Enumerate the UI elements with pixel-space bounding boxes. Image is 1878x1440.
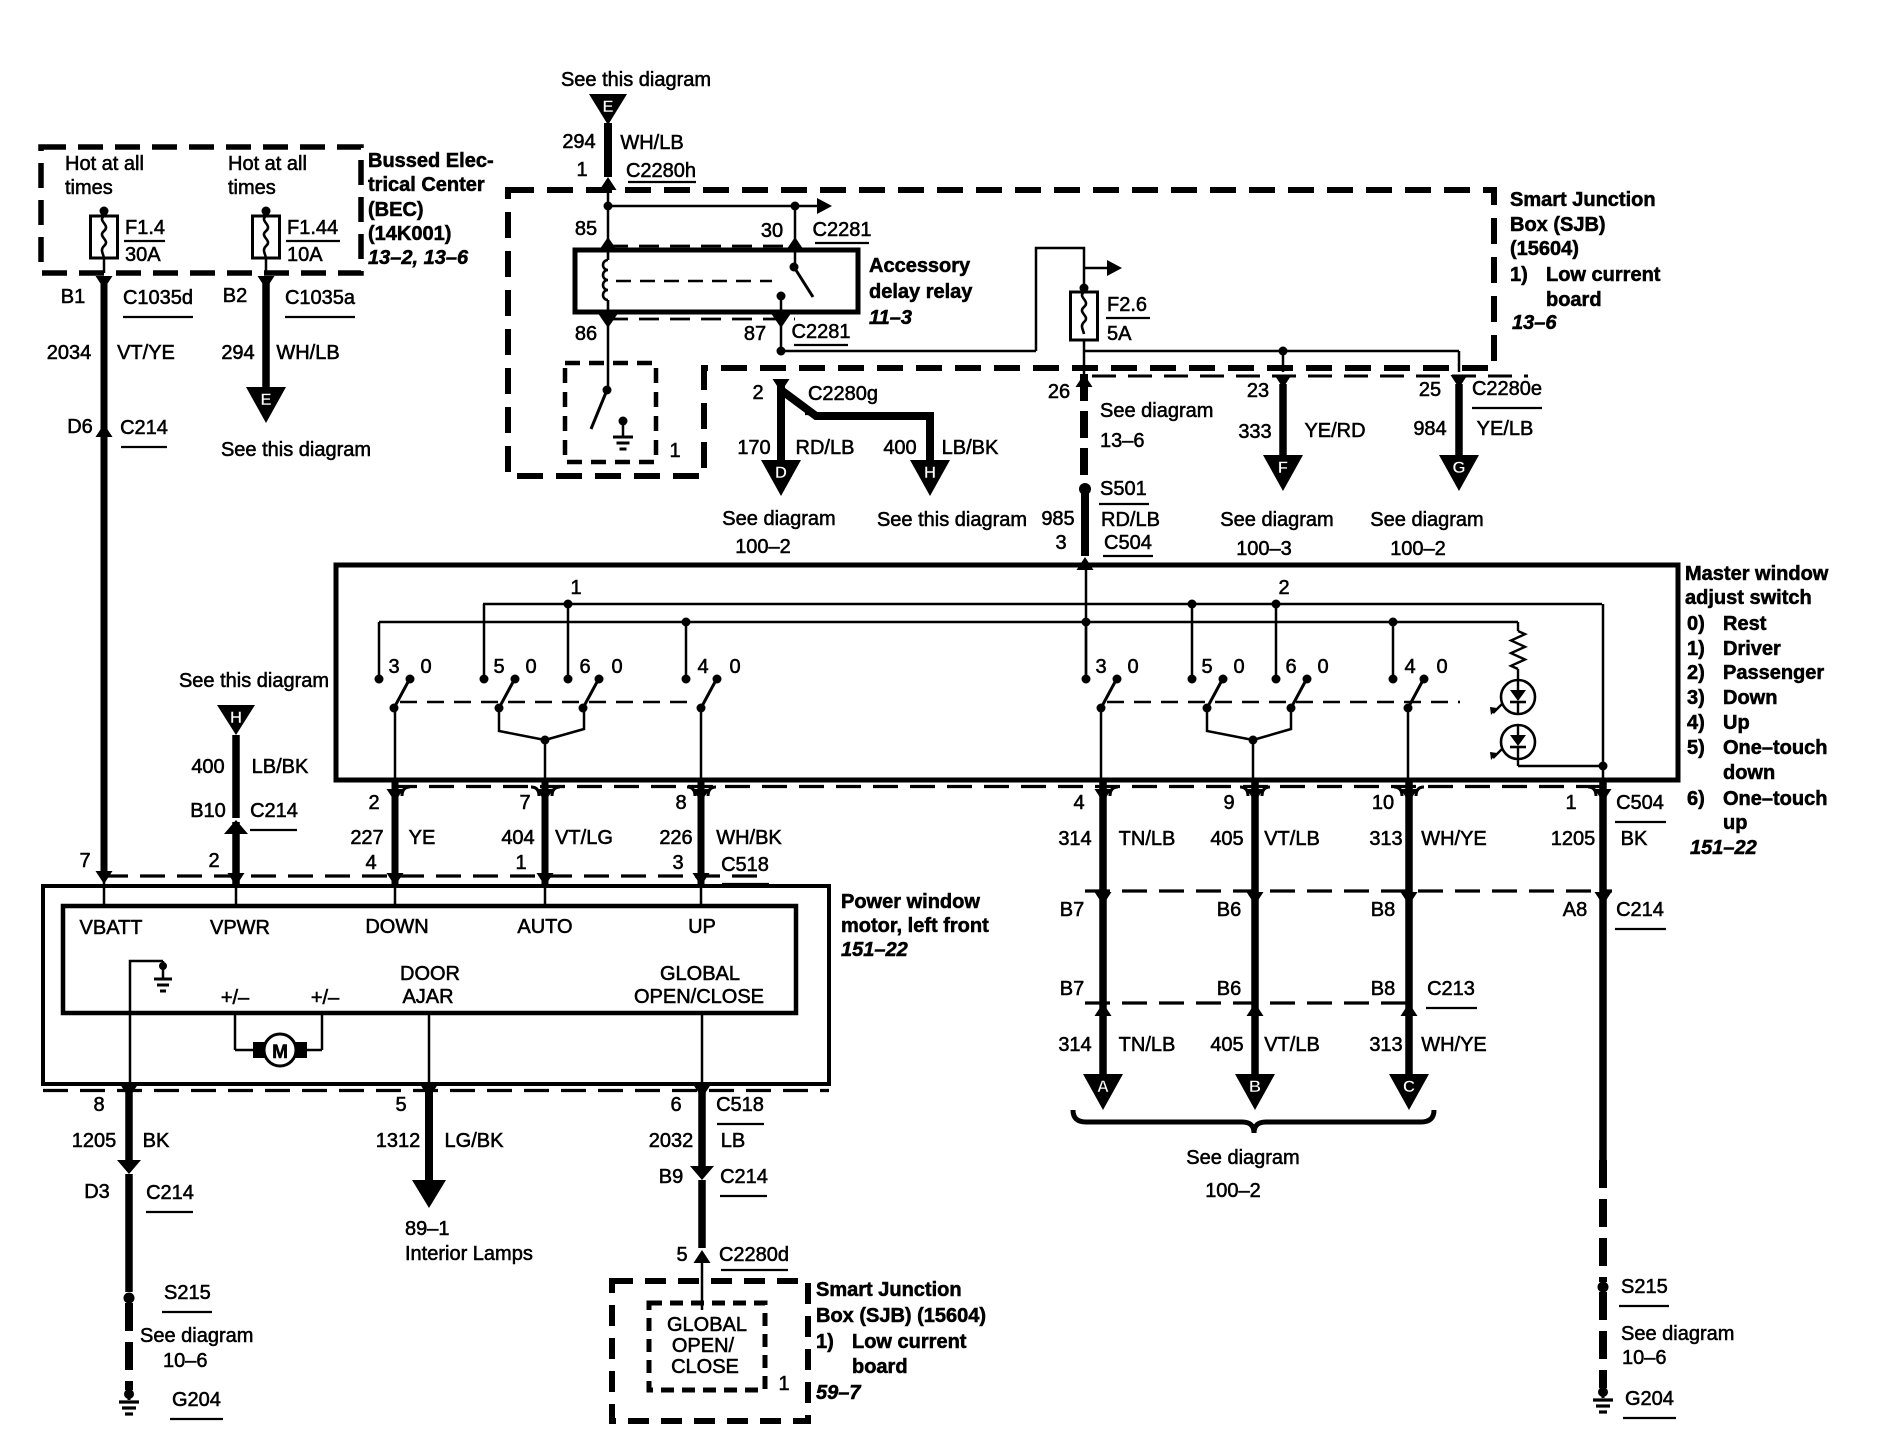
svg-text:1: 1 xyxy=(778,1373,789,1395)
svg-text:WH/YE: WH/YE xyxy=(1421,828,1487,850)
global open/close stub xyxy=(701,1013,704,1084)
internal ground (motor) xyxy=(130,961,163,1084)
svg-text:VBATT: VBATT xyxy=(80,917,143,939)
wire riser to fuse top xyxy=(1036,248,1084,351)
svg-text:6: 6 xyxy=(579,656,590,678)
svg-text:C2280g: C2280g xyxy=(808,383,878,405)
svg-text:89–1: 89–1 xyxy=(405,1218,450,1240)
svg-text:313: 313 xyxy=(1369,1034,1402,1056)
wire 400 LB/BK (B10) xyxy=(232,735,240,818)
svg-text:YE/RD: YE/RD xyxy=(1304,420,1365,442)
svg-text:984: 984 xyxy=(1413,418,1446,440)
svg-text:2032: 2032 xyxy=(649,1130,694,1152)
svg-text:C2281: C2281 xyxy=(813,219,872,241)
svg-text:Driver: Driver xyxy=(1723,638,1781,660)
wire 294 WH/LB (E to SJB) xyxy=(604,123,612,177)
relay switch xyxy=(790,263,799,272)
svg-text:1205: 1205 xyxy=(72,1130,117,1152)
wire 2034 VT/YE (B1 feed) xyxy=(101,276,108,876)
svg-text:AUTO: AUTO xyxy=(517,916,572,938)
svg-text:G204: G204 xyxy=(1625,1388,1674,1410)
svg-text:226: 226 xyxy=(659,827,692,849)
svg-text:4: 4 xyxy=(1404,656,1415,678)
svg-text:227: 227 xyxy=(350,827,383,849)
svg-text:B6: B6 xyxy=(1217,899,1241,921)
svg-text:8: 8 xyxy=(675,792,686,814)
connector line C2280e xyxy=(1092,375,1528,378)
svg-text:5A: 5A xyxy=(1107,323,1132,345)
svg-text:YE: YE xyxy=(409,827,436,849)
arrow stub right of node 30 xyxy=(795,205,818,208)
svg-text:1: 1 xyxy=(515,852,526,874)
svg-text:B2: B2 xyxy=(223,285,247,307)
connector arrow at D6 C214 xyxy=(96,424,113,437)
svg-text:See this diagram: See this diagram xyxy=(561,69,711,91)
wire S215 to G204 (left) xyxy=(125,1303,133,1390)
svg-text:D6: D6 xyxy=(67,416,93,438)
svg-text:11–3: 11–3 xyxy=(869,307,912,329)
svg-text:C2280d: C2280d xyxy=(719,1244,789,1266)
wire pivot3 to pin 4 xyxy=(1100,708,1103,780)
connector line C518/C504 top xyxy=(392,785,1610,788)
connector arrow below F1.4 xyxy=(96,276,113,289)
svg-text:Bussed Elec-: Bussed Elec- xyxy=(368,150,494,172)
svg-text:13–6: 13–6 xyxy=(1512,312,1557,334)
brace under A B C xyxy=(1073,1110,1434,1133)
svg-text:C1035d: C1035d xyxy=(123,287,193,309)
connector line below motor xyxy=(43,1089,829,1092)
connector arrow 25 xyxy=(1451,375,1468,388)
wire branch to pin 30 xyxy=(608,205,795,208)
wire 1312 LG/BK xyxy=(421,1085,438,1098)
splice S215 (right) xyxy=(1598,1282,1609,1293)
svg-text:5): 5) xyxy=(1687,737,1705,759)
svg-text:GLOBAL: GLOBAL xyxy=(660,963,740,985)
off-page arrow B xyxy=(1235,1074,1275,1110)
svg-text:10–6: 10–6 xyxy=(163,1350,208,1372)
wire 985 RD/LB xyxy=(1081,489,1089,556)
motor M xyxy=(234,1013,237,1050)
svg-text:C214: C214 xyxy=(720,1166,768,1188)
svg-text:+/–: +/– xyxy=(311,987,340,1009)
svg-text:C2280h: C2280h xyxy=(626,160,696,182)
svg-text:G: G xyxy=(1452,458,1465,477)
svg-text:See diagram: See diagram xyxy=(1370,509,1483,531)
svg-text:0: 0 xyxy=(1436,656,1447,678)
incoming arrow E (top) xyxy=(589,94,627,125)
svg-text:5: 5 xyxy=(395,1094,406,1116)
svg-text:B: B xyxy=(1249,1077,1261,1096)
svg-text:VT/LB: VT/LB xyxy=(1264,828,1320,850)
svg-text:1312: 1312 xyxy=(376,1130,421,1152)
svg-text:0: 0 xyxy=(420,656,431,678)
arrow stub right of fuse top xyxy=(1084,267,1108,270)
svg-text:RD/LB: RD/LB xyxy=(1101,509,1160,531)
fuse F2.6 5A xyxy=(1071,292,1098,340)
svg-text:30A: 30A xyxy=(125,244,161,266)
svg-text:S501: S501 xyxy=(1100,478,1147,500)
svg-text:Passenger: Passenger xyxy=(1723,662,1824,684)
svg-text:See this diagram: See this diagram xyxy=(877,509,1027,531)
svg-text:TN/LB: TN/LB xyxy=(1119,1034,1176,1056)
wire pivots 5+6 to pin 7 xyxy=(499,708,545,740)
svg-text:Rest: Rest xyxy=(1723,613,1767,635)
svg-text:E: E xyxy=(602,97,613,116)
ground G204 (right) xyxy=(1598,1387,1608,1397)
off-page arrow D xyxy=(761,460,801,496)
switch 5/0 (pass one-touch down) xyxy=(1191,604,1194,679)
wire 87 node xyxy=(780,312,783,352)
switch 4/0 (passenger up) xyxy=(1392,622,1395,679)
wire pin 30 drop xyxy=(794,206,797,267)
mechanical link dashes (left bank) xyxy=(400,701,697,703)
svg-text:BK: BK xyxy=(143,1130,170,1152)
svg-text:See this diagram: See this diagram xyxy=(179,670,329,692)
motor input stubs xyxy=(103,876,106,906)
switch 4/0 (driver up) xyxy=(685,622,688,679)
svg-text:(BEC): (BEC) xyxy=(368,199,424,221)
wire pivots 5+6 to pin 9 xyxy=(1207,708,1253,740)
door ajar stub xyxy=(428,1013,431,1084)
connector line C2281 upper xyxy=(608,245,795,248)
wire node E inside SJB xyxy=(607,181,610,250)
svg-text:C504: C504 xyxy=(1616,792,1664,814)
arrow to interior lamps xyxy=(412,1180,446,1208)
svg-text:4: 4 xyxy=(697,656,708,678)
wire F drop xyxy=(1282,351,1285,372)
svg-text:6): 6) xyxy=(1687,788,1705,810)
svg-text:Up: Up xyxy=(1723,712,1750,734)
svg-text:VT/LB: VT/LB xyxy=(1264,1034,1320,1056)
wire B lower segment xyxy=(1247,1003,1264,1016)
wire B10 to motor xyxy=(232,822,240,884)
svg-text:C2281: C2281 xyxy=(792,321,851,343)
connector line C2281 lower xyxy=(608,318,795,321)
connector arrow B10 C214 xyxy=(224,820,248,834)
svg-text:405: 405 xyxy=(1210,1034,1243,1056)
svg-text:Down: Down xyxy=(1723,687,1777,709)
wire 333 YE/RD xyxy=(1279,384,1287,456)
svg-text:2): 2) xyxy=(1687,662,1705,684)
svg-text:C2280e: C2280e xyxy=(1472,378,1542,400)
switch 5/0 (one-touch down) xyxy=(483,604,486,679)
svg-text:VT/YE: VT/YE xyxy=(117,342,175,364)
power window motor inner box xyxy=(63,906,796,1013)
svg-text:3: 3 xyxy=(1055,532,1066,554)
connector line C518 bottom xyxy=(103,874,758,877)
junction dot above F2.6 xyxy=(1080,284,1089,293)
wire below fuse xyxy=(1083,340,1086,374)
svg-text:1: 1 xyxy=(1565,792,1576,814)
wire pin at x=395 to motor xyxy=(392,780,399,884)
svg-text:400: 400 xyxy=(191,756,224,778)
svg-text:See this diagram: See this diagram xyxy=(221,439,371,461)
svg-text:F1.4: F1.4 xyxy=(125,217,165,239)
connector cell corners xyxy=(402,787,1596,796)
svg-text:up: up xyxy=(1723,812,1747,834)
svg-text:F2.6: F2.6 xyxy=(1107,294,1147,316)
svg-text:See diagram: See diagram xyxy=(722,508,835,530)
wire 1205 BK (pin 8) xyxy=(121,1085,138,1098)
illumination return wire xyxy=(1517,759,1519,766)
svg-text:C214: C214 xyxy=(146,1182,194,1204)
wire B9 to C2280d xyxy=(698,1180,706,1248)
splice S215 (left) xyxy=(124,1293,135,1304)
svg-text:B1: B1 xyxy=(61,286,85,308)
svg-text:6: 6 xyxy=(1285,656,1296,678)
svg-text:DOWN: DOWN xyxy=(365,916,428,938)
svg-text:C213: C213 xyxy=(1427,978,1475,1000)
svg-text:Accessory: Accessory xyxy=(869,255,971,277)
svg-text:10: 10 xyxy=(1372,792,1394,814)
svg-text:985: 985 xyxy=(1041,508,1074,530)
wire pin 1 riser xyxy=(1602,604,1605,780)
connector arrow at C2280h xyxy=(600,177,617,190)
svg-text:B6: B6 xyxy=(1217,978,1241,1000)
connector arrow 26 xyxy=(1076,374,1093,387)
svg-text:One–touch: One–touch xyxy=(1723,788,1827,810)
svg-text:B10: B10 xyxy=(190,800,226,822)
svg-text:314: 314 xyxy=(1058,1034,1091,1056)
wire 294 WH/LB from F1.44 xyxy=(262,276,270,389)
connector arrow 87 xyxy=(772,314,791,328)
bus line 1 xyxy=(483,603,1602,606)
svg-text:0): 0) xyxy=(1687,613,1705,635)
svg-text:2: 2 xyxy=(208,850,219,872)
wire pivot4 to pin 8 xyxy=(700,708,703,780)
wire 26 RD/LB dashed segment xyxy=(1080,374,1088,484)
svg-text:100–2: 100–2 xyxy=(1205,1180,1261,1202)
ground switch lever xyxy=(603,386,612,395)
wire C lower segment xyxy=(1401,1003,1418,1016)
svg-text:Low current: Low current xyxy=(852,1331,967,1353)
svg-text:Box (SJB) (15604): Box (SJB) (15604) xyxy=(816,1305,986,1327)
svg-text:LG/BK: LG/BK xyxy=(445,1130,505,1152)
svg-text:F1.44: F1.44 xyxy=(287,217,338,239)
svg-text:Master window: Master window xyxy=(1685,563,1829,585)
svg-text:Box (SJB): Box (SJB) xyxy=(1510,214,1606,236)
svg-text:0: 0 xyxy=(1127,656,1138,678)
svg-text:VT/LG: VT/LG xyxy=(555,827,613,849)
svg-text:10–6: 10–6 xyxy=(1622,1347,1667,1369)
svg-text:313: 313 xyxy=(1369,828,1402,850)
svg-text:WH/LB: WH/LB xyxy=(276,342,339,364)
svg-text:26: 26 xyxy=(1048,381,1070,403)
wire 400 LB/BK branch xyxy=(781,390,930,460)
ground G204 (left) xyxy=(124,1389,134,1399)
svg-text:6: 6 xyxy=(670,1094,681,1116)
svg-text:0: 0 xyxy=(1317,656,1328,678)
illumination resistor xyxy=(1517,622,1519,631)
connector line C214 right xyxy=(1085,889,1612,892)
off-page arrow C xyxy=(1389,1074,1429,1110)
svg-text:D3: D3 xyxy=(84,1181,110,1203)
wire D3 to S215 (left) xyxy=(125,1174,133,1292)
connector line C213 right xyxy=(1085,1001,1412,1004)
svg-text:delay relay: delay relay xyxy=(869,281,973,303)
svg-text:0: 0 xyxy=(1233,656,1244,678)
wire 170 RD/LB xyxy=(777,384,785,460)
svg-text:B7: B7 xyxy=(1060,899,1084,921)
svg-text:3: 3 xyxy=(388,656,399,678)
wire bus to F and G xyxy=(1084,350,1459,353)
fuse F1.4 30A xyxy=(100,207,109,216)
svg-text:7: 7 xyxy=(79,850,90,872)
wire 87 horizontal run xyxy=(781,350,1036,353)
svg-text:C214: C214 xyxy=(250,800,298,822)
global open/close outer dashed box xyxy=(612,1281,808,1421)
svg-text:times: times xyxy=(65,177,113,199)
svg-text:S215: S215 xyxy=(164,1282,211,1304)
svg-text:C518: C518 xyxy=(721,854,769,876)
svg-text:B8: B8 xyxy=(1371,978,1395,1000)
svg-text:0: 0 xyxy=(729,656,740,678)
svg-text:board: board xyxy=(1546,289,1602,311)
connector arrow 2 C2280g xyxy=(773,379,790,392)
svg-text:trical Center: trical Center xyxy=(368,174,485,196)
svg-text:LB: LB xyxy=(721,1130,745,1152)
svg-text:H: H xyxy=(924,463,936,482)
svg-text:UP: UP xyxy=(688,916,716,938)
svg-text:WH/LB: WH/LB xyxy=(620,132,683,154)
svg-text:7: 7 xyxy=(519,792,530,814)
relay coil xyxy=(607,251,610,260)
connector arrow 3 C504 xyxy=(1077,557,1094,570)
svg-text:404: 404 xyxy=(501,827,534,849)
svg-text:See diagram: See diagram xyxy=(1621,1323,1734,1345)
wire into global box xyxy=(701,1252,704,1310)
svg-text:30: 30 xyxy=(761,220,783,242)
svg-text:Hot at all: Hot at all xyxy=(65,153,144,175)
svg-text:Smart Junction: Smart Junction xyxy=(816,1279,962,1301)
switch 3/0 (passenger down) xyxy=(1085,622,1088,679)
svg-text:9: 9 xyxy=(1223,792,1234,814)
svg-text:OPEN/: OPEN/ xyxy=(672,1335,735,1357)
ground symbol in switch box xyxy=(619,417,628,426)
connector arrow 85 xyxy=(599,237,618,251)
wire pin at x=701 to motor xyxy=(698,780,705,884)
off-page arrow G xyxy=(1439,455,1479,491)
svg-text:times: times xyxy=(228,177,276,199)
svg-text:5: 5 xyxy=(1201,656,1212,678)
svg-text:AJAR: AJAR xyxy=(402,986,453,1008)
svg-text:23: 23 xyxy=(1247,380,1269,402)
svg-text:GLOBAL: GLOBAL xyxy=(667,1314,747,1336)
illumination LED 1 xyxy=(1501,680,1535,714)
connector arrow below F1.44 xyxy=(258,276,275,289)
svg-text:See diagram: See diagram xyxy=(1220,509,1333,531)
ground switch dashed box xyxy=(565,363,656,462)
svg-text:1): 1) xyxy=(816,1331,834,1353)
svg-text:LB/BK: LB/BK xyxy=(942,437,999,459)
svg-text:1): 1) xyxy=(1687,638,1705,660)
svg-text:151–22: 151–22 xyxy=(841,939,908,961)
svg-text:BK: BK xyxy=(1621,828,1648,850)
global open/close inner dashed box xyxy=(649,1303,765,1390)
svg-text:25: 25 xyxy=(1419,379,1441,401)
svg-text:5: 5 xyxy=(676,1244,687,1266)
svg-text:Smart Junction: Smart Junction xyxy=(1510,189,1656,211)
svg-text:H: H xyxy=(230,708,242,727)
Smart Junction Box dashed outline xyxy=(508,190,1494,476)
svg-text:8: 8 xyxy=(93,1094,104,1116)
svg-text:VPWR: VPWR xyxy=(210,917,270,939)
connector arrow 30 xyxy=(786,237,805,251)
svg-text:YE/LB: YE/LB xyxy=(1477,418,1534,440)
off-page arrow E (to this diagram) xyxy=(246,387,286,423)
wire pivot3 to pin 2 xyxy=(394,708,397,780)
off-page arrow F xyxy=(1263,455,1303,491)
svg-text:(15604): (15604) xyxy=(1510,238,1579,260)
off-page arrow H xyxy=(910,460,950,496)
master window adjust switch box xyxy=(336,565,1678,780)
wire 984 YE/LB xyxy=(1455,384,1463,456)
svg-text:4): 4) xyxy=(1687,712,1705,734)
svg-text:3: 3 xyxy=(1095,656,1106,678)
svg-text:Power window: Power window xyxy=(841,891,980,913)
svg-text:1205: 1205 xyxy=(1551,828,1596,850)
svg-text:87: 87 xyxy=(744,323,766,345)
connector arrow 86 xyxy=(599,314,618,328)
svg-text:294: 294 xyxy=(221,342,254,364)
svg-text:13–2, 13–6: 13–2, 13–6 xyxy=(368,247,469,269)
svg-text:WH/BK: WH/BK xyxy=(716,827,782,849)
svg-text:4: 4 xyxy=(1073,792,1084,814)
svg-text:See diagram: See diagram xyxy=(1186,1147,1299,1169)
svg-text:B9: B9 xyxy=(659,1166,683,1188)
svg-text:100–3: 100–3 xyxy=(1236,538,1292,560)
svg-text:RD/LB: RD/LB xyxy=(796,437,855,459)
svg-text:B8: B8 xyxy=(1371,899,1395,921)
svg-text:Hot at all: Hot at all xyxy=(228,153,307,175)
svg-text:G204: G204 xyxy=(172,1389,221,1411)
wire A lower segment xyxy=(1095,1003,1112,1016)
svg-text:(14K001): (14K001) xyxy=(368,223,451,245)
svg-text:170: 170 xyxy=(737,437,770,459)
svg-text:C: C xyxy=(1403,1077,1415,1096)
svg-text:See diagram: See diagram xyxy=(1100,400,1213,422)
svg-text:86: 86 xyxy=(575,323,597,345)
wire pivot4 to pin 10 xyxy=(1407,708,1410,780)
svg-text:100–2: 100–2 xyxy=(735,536,791,558)
svg-text:See diagram: See diagram xyxy=(140,1325,253,1347)
relay internal dashed link xyxy=(616,280,772,282)
svg-text:B7: B7 xyxy=(1060,978,1084,1000)
svg-text:10A: 10A xyxy=(287,244,323,266)
svg-text:LB/BK: LB/BK xyxy=(252,756,309,778)
switch 6/0 (pass one-touch up) xyxy=(1275,604,1278,679)
power window motor outer box xyxy=(43,886,829,1084)
svg-text:3: 3 xyxy=(672,852,683,874)
svg-text:F: F xyxy=(1278,458,1288,477)
svg-text:OPEN/CLOSE: OPEN/CLOSE xyxy=(634,986,764,1008)
wire G drop xyxy=(1458,351,1461,372)
svg-text:1: 1 xyxy=(669,440,680,462)
fuse F1.44 10A xyxy=(262,207,271,216)
svg-text:3): 3) xyxy=(1687,687,1705,709)
svg-text:1: 1 xyxy=(570,577,581,599)
svg-text:WH/YE: WH/YE xyxy=(1421,1034,1487,1056)
accessory delay relay box xyxy=(575,250,858,312)
svg-text:C504: C504 xyxy=(1104,532,1152,554)
Bussed Electrical Center dashed box xyxy=(41,147,361,273)
svg-text:Low current: Low current xyxy=(1546,264,1661,286)
svg-text:M: M xyxy=(272,1042,288,1063)
wire C upper segment xyxy=(1405,780,1413,1003)
svg-text:13–6: 13–6 xyxy=(1100,430,1145,452)
switch 6/0 (one-touch up) xyxy=(567,604,570,679)
svg-text:down: down xyxy=(1723,762,1775,784)
